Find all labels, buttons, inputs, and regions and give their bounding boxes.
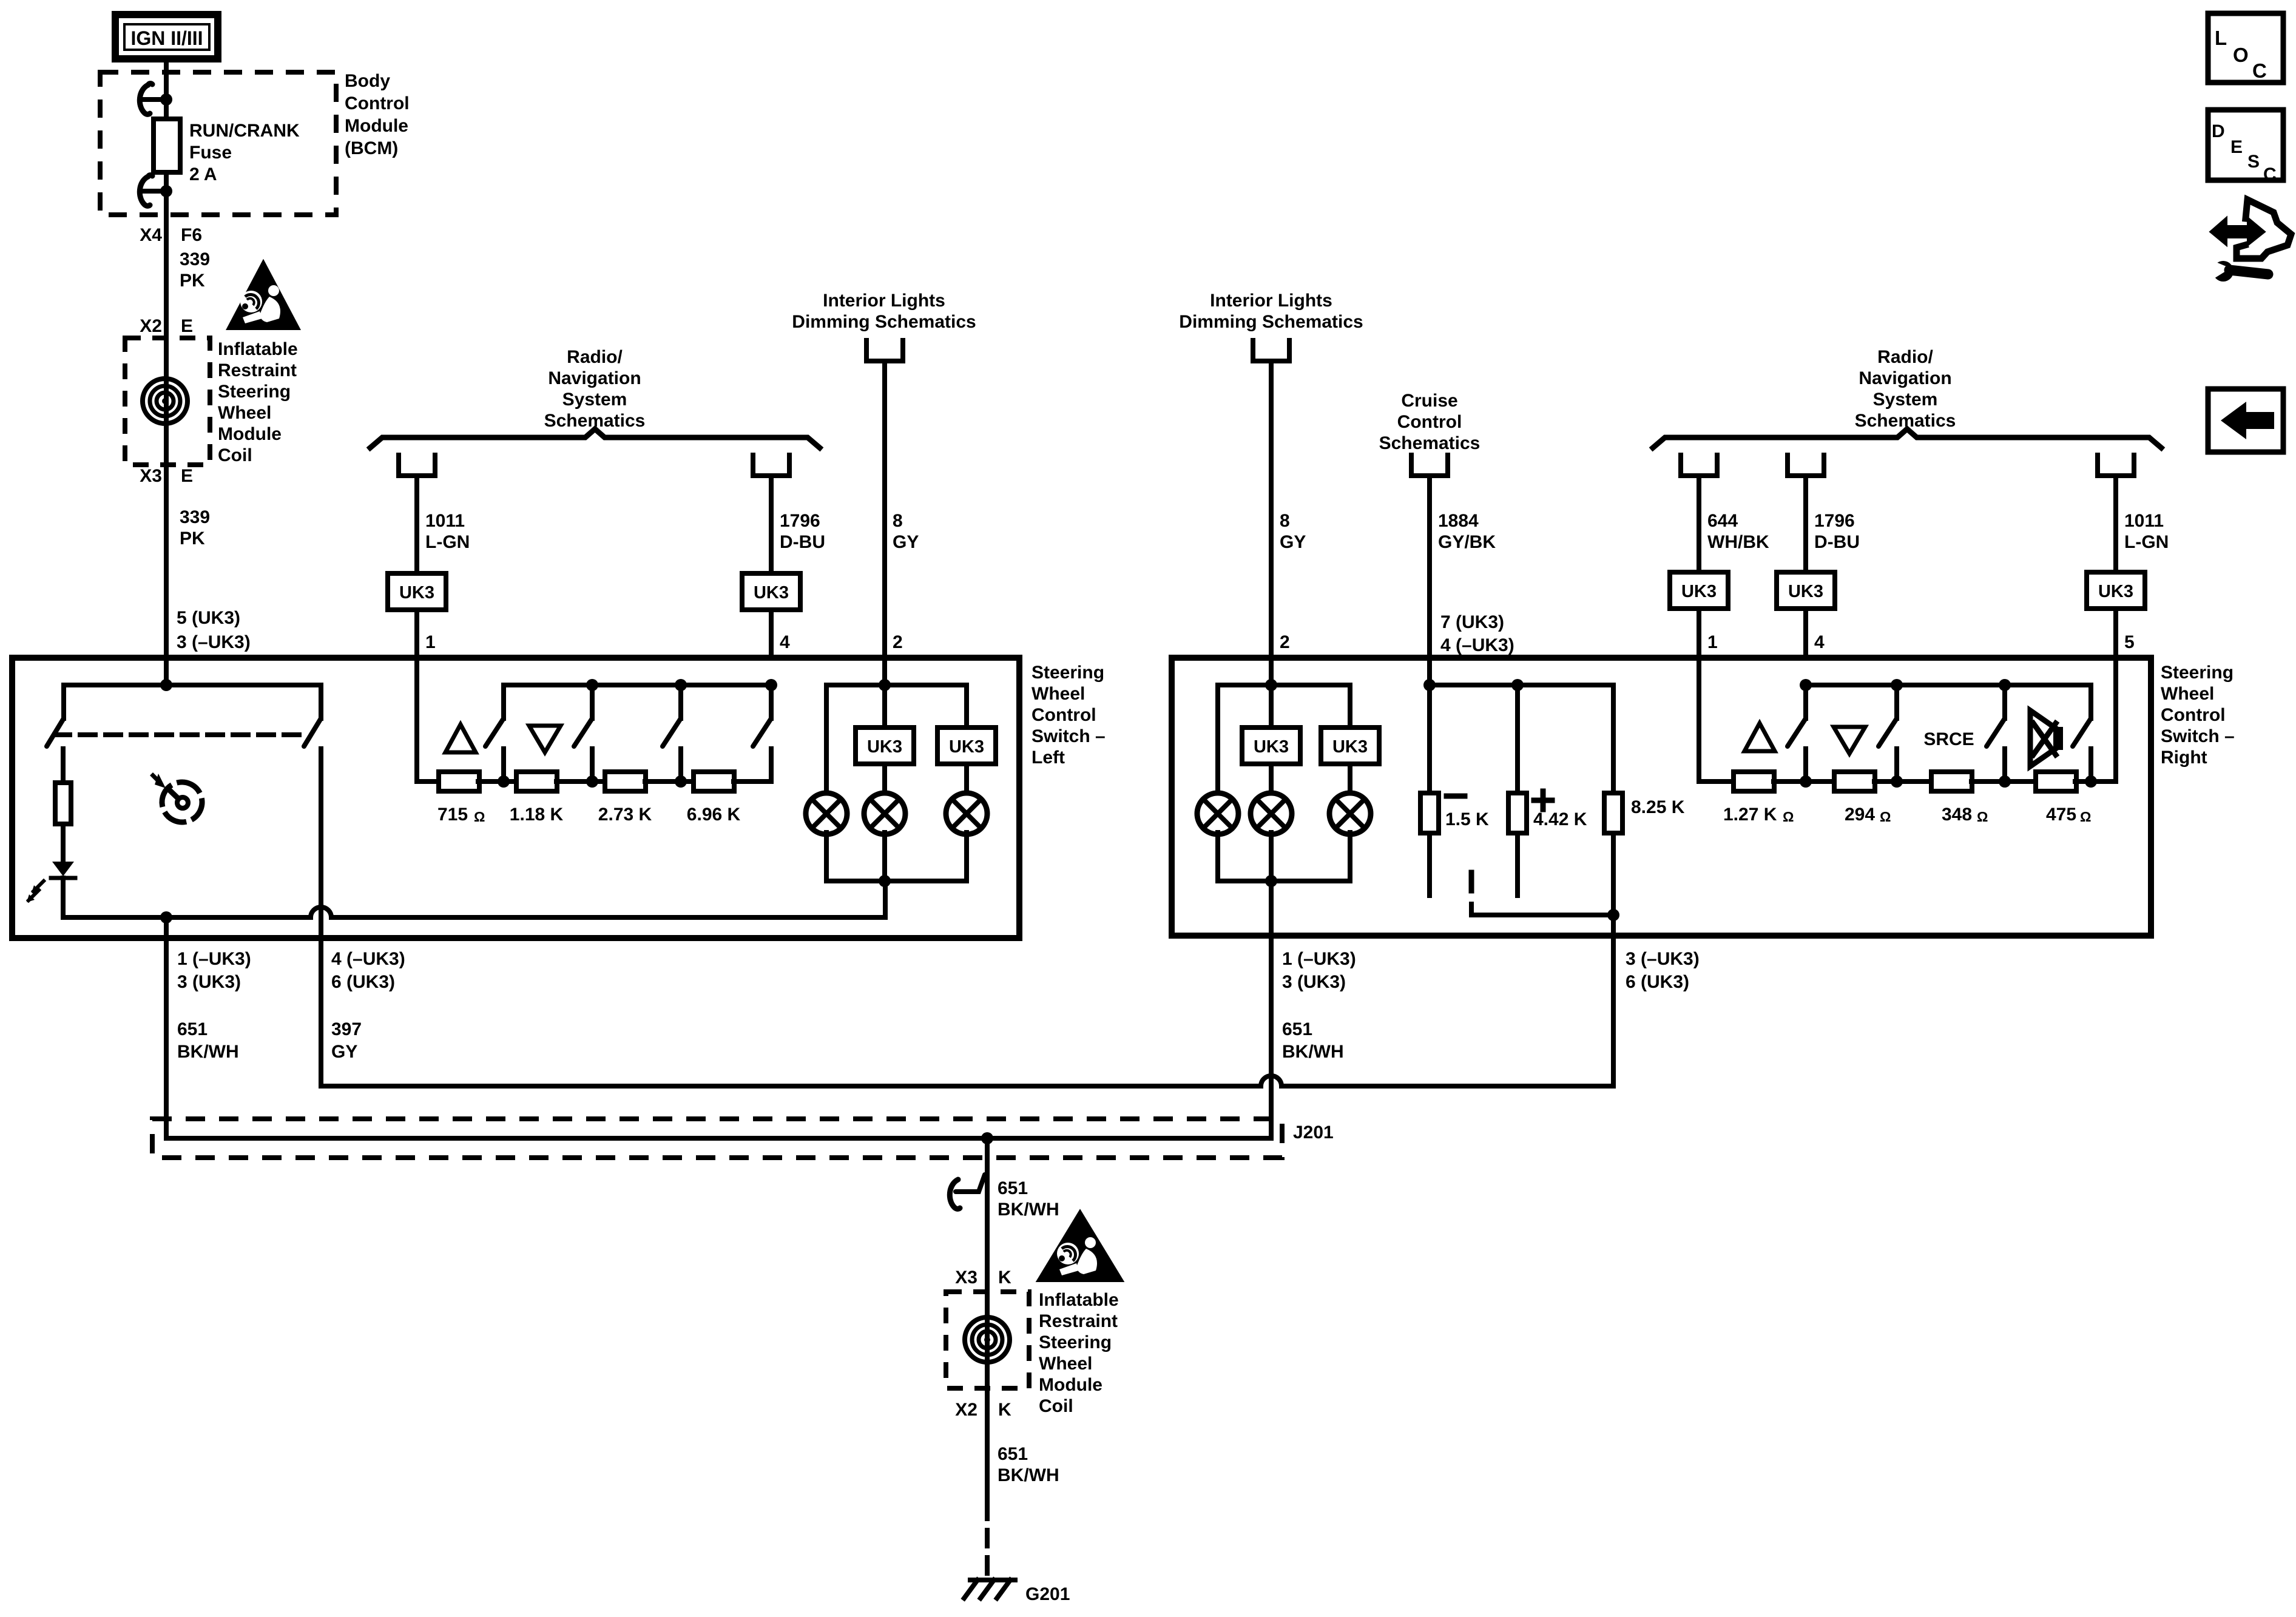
junction dot LED bottom rail [160, 911, 172, 923]
volume up switch [501, 685, 506, 718]
svg-text:BK/WH: BK/WH [177, 1042, 239, 1062]
svg-text:339: 339 [180, 507, 210, 527]
svg-text:L-GN: L-GN [425, 532, 470, 552]
svg-text:644: 644 [1707, 511, 1738, 531]
fuse clip top hook [144, 97, 163, 102]
wire IGN to BCM [164, 59, 169, 126]
lamp3 left box [946, 793, 987, 834]
volume up icon right [1744, 723, 1775, 751]
volume down switch right [1891, 679, 1903, 691]
wire 651 BK/WH left drop [164, 938, 169, 1138]
LED section top rail [64, 683, 321, 687]
svg-text:475: 475 [2046, 805, 2076, 825]
svg-text:1884: 1884 [1438, 511, 1479, 531]
svg-text:G201: G201 [1025, 1584, 1070, 1604]
svg-text:System: System [1873, 390, 1938, 410]
junction dot lamp bottom [879, 875, 891, 887]
clockspring coil spiral lower [965, 1317, 1010, 1362]
LED section bottom rail with hop over pin4 wire [63, 881, 885, 917]
volume down switch [590, 685, 595, 718]
wire 651 exit from lamp rail right [1269, 881, 1274, 936]
svg-text:Ω: Ω [1977, 809, 1988, 825]
svg-text:Steering: Steering [218, 382, 291, 402]
wire switch to backlight resistor [61, 749, 66, 783]
svg-text:(BCM): (BCM) [345, 138, 398, 158]
Steering Wheel Control Switch - Left box [12, 658, 1019, 938]
wire coil to ground dashed [985, 1503, 990, 1580]
svg-text:UK3: UK3 [1332, 737, 1368, 757]
svg-text:WH/BK: WH/BK [1707, 532, 1769, 552]
lamp1 right box [1197, 793, 1238, 834]
svg-text:1 (–UK3): 1 (–UK3) [177, 949, 251, 969]
svg-text:X2: X2 [140, 316, 162, 336]
svg-text:E: E [2230, 137, 2243, 157]
wire fuse to coil connector [164, 172, 169, 658]
svg-text:651: 651 [998, 1178, 1028, 1198]
svg-text:BK/WH: BK/WH [1282, 1042, 1344, 1062]
wire 651 to lower coil [985, 1138, 990, 1388]
svg-text:IGN II/III: IGN II/III [130, 27, 203, 49]
svg-text:BK/WH: BK/WH [998, 1200, 1059, 1220]
resistor 2.73 K [605, 772, 646, 791]
svg-text:8: 8 [1280, 511, 1290, 531]
svg-text:339: 339 [180, 249, 210, 269]
svg-text:1796: 1796 [780, 511, 820, 531]
wire pin 2 into lamp section left [882, 658, 887, 727]
off-page connector 1796 wire [753, 455, 789, 476]
junction dot splice J201 [981, 1132, 993, 1144]
wire right switch arm down to pin4/6 exit [319, 749, 323, 1086]
junction dot lamp bottom right [1265, 875, 1277, 887]
svg-text:PK: PK [180, 528, 205, 549]
junction dot rail switch2 [586, 679, 598, 691]
svg-text:5: 5 [2124, 632, 2135, 652]
svg-text:E: E [181, 316, 193, 336]
svg-text:1.18 K: 1.18 K [510, 805, 564, 825]
option box UK3 lamp2 right [1242, 727, 1300, 764]
svg-text:1.5 K: 1.5 K [1445, 809, 1489, 829]
clockspring coil spiral upper [143, 379, 187, 424]
svg-text:6 (UK3): 6 (UK3) [331, 972, 395, 992]
seek forward switch [678, 685, 683, 718]
lamp top rail right box [1218, 683, 1350, 687]
svg-text:PK: PK [180, 271, 205, 291]
svg-text:L-GN: L-GN [2124, 532, 2169, 552]
option box UK3 on 1796 wire [742, 573, 800, 610]
svg-text:Module: Module [218, 424, 282, 444]
svg-text:715: 715 [437, 805, 468, 825]
fuse F6 RUN/CRANK 2A [154, 119, 180, 172]
svg-text:Wheel: Wheel [1032, 684, 1085, 704]
cruise branch 8.25 K [1611, 685, 1616, 793]
svg-text:D-BU: D-BU [1814, 532, 1860, 552]
svg-text:GY: GY [331, 1042, 357, 1062]
off-page connector 8 GY wire left [866, 340, 903, 361]
backlight LED diode [52, 862, 74, 876]
wire pin 2 into lamp section right [1269, 658, 1274, 727]
Steering Wheel Control Switch - Right box [1172, 658, 2151, 936]
svg-text:Module: Module [345, 116, 408, 136]
svg-text:X4: X4 [140, 225, 162, 245]
svg-text:Radio/: Radio/ [1877, 347, 1933, 367]
junction dot rail switch4 [765, 679, 777, 691]
svg-text:4: 4 [1814, 632, 1825, 652]
svg-text:Wheel: Wheel [2161, 684, 2214, 704]
svg-text:3 (–UK3): 3 (–UK3) [1626, 949, 1700, 969]
mute speaker icon [2030, 711, 2058, 766]
svg-text:Steering: Steering [1032, 663, 1104, 683]
svg-text:Navigation: Navigation [548, 368, 641, 388]
svg-text:4: 4 [780, 632, 790, 652]
ground symbol G201 [970, 1578, 1015, 1582]
lamp bottom rail left box [826, 879, 967, 883]
svg-text:Dimming Schematics: Dimming Schematics [792, 312, 976, 332]
ganged switch right arm [319, 685, 323, 718]
radio switch top rail right [1806, 683, 2091, 687]
wire UK3 to switch pin 4 [769, 610, 774, 658]
svg-text:2: 2 [893, 632, 903, 652]
svg-text:Navigation: Navigation [1859, 368, 1951, 388]
svg-text:E: E [181, 466, 193, 486]
junction dot lamp rail [879, 679, 891, 691]
svg-text:2.73 K: 2.73 K [598, 805, 652, 825]
cruise branch 4.42 K [1515, 685, 1520, 793]
svg-text:S: S [2247, 152, 2260, 172]
svg-text:1 (–UK3): 1 (–UK3) [1282, 949, 1356, 969]
wire pin 1 into resistor ladder right [1699, 658, 1734, 781]
off-page connector 8 GY wire right [1253, 340, 1289, 361]
LOC navigation button [2208, 13, 2283, 83]
svg-text:Ω: Ω [1880, 809, 1891, 825]
brace radio/nav right [1653, 429, 2161, 448]
wire resistor to LED [61, 824, 66, 862]
wire pin4 through rail [769, 685, 774, 718]
mute switch right [2088, 685, 2093, 718]
svg-text:3 (–UK3): 3 (–UK3) [177, 632, 251, 652]
svg-text:Right: Right [2161, 748, 2207, 768]
wire pin1/3 exit from LED rail [164, 917, 169, 938]
svg-text:J201: J201 [1293, 1122, 1334, 1143]
resistor 348 ohm [1931, 772, 1972, 791]
svg-text:Radio/: Radio/ [567, 347, 623, 367]
off-page connector 1011 wire right [2098, 455, 2134, 476]
junction dot fuse top [160, 93, 172, 106]
svg-text:Wheel: Wheel [218, 403, 271, 423]
svg-text:1011: 1011 [425, 511, 465, 531]
wire pin 1 into resistor ladder [417, 658, 439, 781]
svg-text:K: K [998, 1400, 1011, 1420]
svg-text:UK3: UK3 [754, 583, 789, 603]
svg-text:397: 397 [331, 1019, 362, 1039]
ganged switch left arm [61, 685, 66, 718]
option box UK3 on 1796 wire right [1777, 572, 1835, 609]
svg-text:Restraint: Restraint [1039, 1311, 1118, 1331]
volume up icon [445, 724, 476, 752]
wire cruise output exit [1611, 915, 1616, 936]
svg-text:Cruise: Cruise [1401, 391, 1457, 411]
volume up switch right [1800, 679, 1812, 691]
off-page connector 1011 wire [399, 455, 435, 476]
off-page connector 1884 wire [1411, 455, 1448, 476]
svg-text:Module: Module [1039, 1375, 1102, 1395]
junction dot cruise output [1607, 909, 1619, 921]
svg-text:L: L [2215, 27, 2227, 49]
resistor 475 ohm [2036, 772, 2076, 791]
svg-text:UK3: UK3 [1788, 582, 1823, 601]
svg-text:D-BU: D-BU [780, 532, 825, 552]
svg-text:Left: Left [1032, 748, 1065, 768]
cruise set/resume contact [1469, 873, 1474, 891]
option box UK3 on 644 wire [1670, 572, 1728, 609]
junction dot lamp rail right [1265, 679, 1277, 691]
svg-text:F6: F6 [181, 225, 202, 245]
lamp1 branch right [1215, 685, 1220, 795]
svg-text:Ω: Ω [2080, 809, 2091, 825]
svg-text:651: 651 [177, 1019, 208, 1039]
resistor 1.18 K [516, 772, 557, 791]
cruise top rail [1430, 683, 1613, 687]
svg-text:C: C [2252, 59, 2267, 82]
svg-text:Wheel: Wheel [1039, 1354, 1092, 1374]
svg-text:Steering: Steering [2161, 663, 2234, 683]
svg-text:D: D [2212, 121, 2225, 141]
svg-text:3 (UK3): 3 (UK3) [1282, 972, 1346, 992]
svg-text:651: 651 [1282, 1019, 1312, 1039]
svg-text:K: K [998, 1268, 1011, 1288]
svg-text:1011: 1011 [2124, 511, 2164, 531]
cruise wiper wire to output [1471, 904, 1613, 915]
svg-text:BK/WH: BK/WH [998, 1465, 1059, 1485]
svg-text:SRCE: SRCE [1923, 729, 1974, 749]
svg-text:RUN/CRANK: RUN/CRANK [189, 121, 300, 141]
junction dot rail switch3 [675, 679, 687, 691]
lamp2 right box [1251, 793, 1292, 834]
wire 397 GY run with hop over 651 wire [321, 936, 1613, 1086]
option box UK3 lamp3 [937, 727, 996, 764]
svg-text:Control: Control [345, 93, 410, 113]
svg-text:X2: X2 [955, 1400, 977, 1420]
svg-text:UK3: UK3 [867, 737, 902, 757]
backlight resistor vertical [55, 783, 71, 824]
rail segment and contact dots [478, 779, 517, 784]
wire pin 7/4 into cruise divider [1427, 658, 1432, 685]
lamp2 left box [864, 793, 905, 834]
wire coil to ground solid [985, 1388, 990, 1503]
power feed box IGN II/III [115, 15, 218, 59]
brace radio/nav left [370, 429, 820, 448]
gauge illumination icon [159, 779, 205, 825]
Inflatable Restraint Steering Wheel Module Coil dashed box lower [946, 1292, 1029, 1388]
svg-text:Control: Control [1032, 705, 1096, 725]
svg-text:Fuse: Fuse [189, 143, 232, 163]
svg-text:348: 348 [1942, 805, 1972, 825]
svg-text:3 (UK3): 3 (UK3) [177, 972, 241, 992]
svg-text:6.96 K: 6.96 K [687, 805, 741, 825]
Body Control Module (BCM) dashed box [100, 72, 336, 215]
off-page connector 644 wire [1681, 455, 1717, 476]
option box UK3 on 1011 wire right [2087, 572, 2145, 609]
svg-text:Control: Control [2161, 705, 2226, 725]
svg-text:8: 8 [893, 511, 903, 531]
svg-text:Switch –: Switch – [1032, 726, 1106, 746]
svg-text:1796: 1796 [1814, 511, 1855, 531]
fuse clip bottom hook [144, 189, 163, 194]
svg-text:UK3: UK3 [2098, 582, 2133, 601]
option box UK3 lamp2 [856, 727, 914, 764]
svg-text:Interior Lights: Interior Lights [823, 291, 945, 311]
svg-text:X3: X3 [140, 466, 162, 486]
option box UK3 on 1011 wire [388, 573, 446, 610]
wire pin5/3 into LED section [164, 658, 169, 685]
radio switch top rail [504, 683, 771, 687]
svg-text:Interior Lights: Interior Lights [1210, 291, 1332, 311]
svg-text:4 (–UK3): 4 (–UK3) [1440, 635, 1514, 655]
svg-text:651: 651 [998, 1444, 1028, 1464]
lamp3 right box [1329, 793, 1371, 834]
wire 651 BK/WH splice run [166, 1136, 1271, 1141]
svg-text:Inflatable: Inflatable [1039, 1290, 1119, 1310]
lamp3 branch [964, 685, 969, 727]
splice clip hook [956, 1175, 985, 1192]
resistor 1.27 K [1734, 772, 1774, 791]
svg-text:Ω: Ω [474, 809, 485, 825]
SRS caution triangle upper [229, 263, 298, 328]
svg-text:1: 1 [425, 632, 436, 652]
LED light arrows [33, 881, 44, 891]
lamp bottom rail right box [1218, 879, 1350, 883]
svg-text:Body: Body [345, 71, 390, 91]
svg-text:GY: GY [1280, 532, 1306, 552]
svg-text:UK3: UK3 [1681, 582, 1717, 601]
svg-text:Schematics: Schematics [1379, 433, 1481, 453]
svg-text:GY/BK: GY/BK [1438, 532, 1496, 552]
svg-text:UK3: UK3 [399, 583, 434, 603]
svg-text:Inflatable: Inflatable [218, 339, 298, 359]
svg-text:5 (UK3): 5 (UK3) [177, 608, 240, 628]
option box UK3 lamp3 right [1321, 727, 1379, 764]
svg-text:2 A: 2 A [189, 164, 217, 184]
svg-text:Coil: Coil [1039, 1396, 1073, 1416]
svg-text:UK3: UK3 [1254, 737, 1289, 757]
volume down icon [529, 726, 561, 752]
svg-text:X3: X3 [955, 1268, 977, 1288]
svg-text:4.42 K: 4.42 K [1533, 809, 1587, 829]
wire 651 BK/WH right drop [1269, 936, 1274, 1138]
svg-text:UK3: UK3 [949, 737, 984, 757]
volume down icon right [1834, 727, 1865, 754]
svg-text:GY: GY [893, 532, 919, 552]
svg-text:C: C [2263, 164, 2277, 184]
wire UK3 to switch pin 1 [414, 610, 419, 658]
svg-text:4 (–UK3): 4 (–UK3) [331, 949, 405, 969]
svg-text:Restraint: Restraint [218, 360, 297, 380]
svg-text:System: System [562, 390, 627, 410]
gang dashed link [55, 732, 308, 737]
svg-text:Dimming Schematics: Dimming Schematics [1179, 312, 1363, 332]
minus sign [1447, 794, 1465, 799]
back arrow button [2208, 389, 2283, 452]
svg-text:Switch –: Switch – [2161, 726, 2235, 746]
junction dot fuse bottom [160, 185, 172, 197]
wire pin 5 into ladder right end [2113, 658, 2118, 781]
off-page connector 1796 wire right [1788, 455, 1824, 476]
svg-text:7 (UK3): 7 (UK3) [1440, 612, 1504, 632]
svg-text:6 (UK3): 6 (UK3) [1626, 972, 1689, 992]
svg-text:8.25 K: 8.25 K [1631, 797, 1685, 817]
lamp top rail left box [826, 683, 967, 687]
svg-text:O: O [2233, 44, 2249, 66]
resistor 6.96 K [694, 772, 734, 791]
Inflatable Restraint Steering Wheel Module Coil dashed box upper [125, 338, 210, 465]
source switch right [1999, 679, 2011, 691]
SRS caution triangle lower [1039, 1212, 1121, 1280]
svg-text:1: 1 [1707, 632, 1718, 652]
svg-text:1.27 K: 1.27 K [1723, 805, 1777, 825]
lamp1 left box [806, 793, 847, 834]
svg-text:2: 2 [1280, 632, 1290, 652]
lamp1 branch [824, 685, 829, 795]
resistor 294 ohm [1834, 772, 1875, 791]
harness connector J201 dashed box [152, 1119, 1282, 1158]
DESC navigation button [2208, 110, 2283, 180]
plus sign [1534, 798, 1552, 803]
svg-text:Steering: Steering [1039, 1332, 1112, 1352]
svg-text:Ω: Ω [1783, 809, 1794, 825]
resistor 715 ohm [439, 772, 479, 791]
fix-it tool icon [2212, 220, 2263, 243]
junction dot LED rail [160, 679, 172, 691]
lamp3 branch right [1348, 685, 1352, 727]
svg-text:Control: Control [1397, 412, 1462, 432]
cruise branch 1.5 K [1427, 685, 1432, 793]
svg-text:294: 294 [1845, 805, 1875, 825]
svg-text:Coil: Coil [218, 445, 252, 465]
